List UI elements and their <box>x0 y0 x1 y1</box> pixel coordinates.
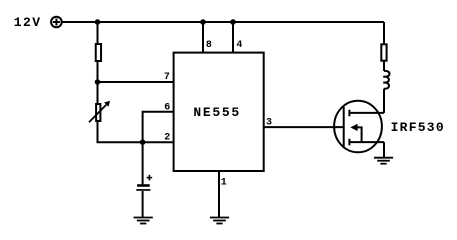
junction node pin 4 <box>230 19 236 25</box>
wire capacitor to ground <box>142 191 144 218</box>
wire pin 8 <box>202 22 204 53</box>
power terminal V+ <box>51 17 62 28</box>
potentiometer VR1 <box>89 101 110 123</box>
ground (capacitor) <box>134 218 153 224</box>
wire R2 to L1 <box>383 61 385 71</box>
resistor R1 <box>96 44 101 61</box>
Q1 body arrow <box>350 124 361 142</box>
Q1 gate bar <box>343 107 345 148</box>
junction node pin 8 <box>200 19 206 25</box>
wire source to ground <box>383 142 385 158</box>
capacitor C1 <box>136 185 150 191</box>
svg-text:7: 7 <box>164 72 170 83</box>
svg-text:8: 8 <box>206 40 212 51</box>
ground (source) <box>374 158 393 164</box>
svg-text:4: 4 <box>236 40 242 51</box>
wire pin 1 to ground <box>218 171 220 218</box>
svg-text:2: 2 <box>164 133 170 144</box>
svg-text:6: 6 <box>164 103 170 114</box>
wire pin 3 to gate <box>264 126 344 128</box>
wire R1 bottom to node <box>97 62 99 83</box>
wire pot bottom to pin 2 rail <box>98 122 174 142</box>
wire L1 to drain <box>383 89 385 113</box>
IC U1 NE555 body <box>174 53 264 171</box>
junction node at R1 top <box>95 19 101 25</box>
svg-text:IRF530: IRF530 <box>391 120 445 135</box>
svg-text:12V: 12V <box>14 15 42 30</box>
wire pin 4 <box>232 22 234 53</box>
Q1 source electrode <box>349 139 384 146</box>
wire top rail down to R2 <box>383 22 385 43</box>
wire top rail <box>62 21 384 23</box>
capacitor C1 polarity + <box>147 175 153 181</box>
wire node to potentiometer <box>97 82 99 103</box>
wire from top rail to R1 <box>97 22 99 43</box>
junction node pin 7 <box>95 79 101 85</box>
ground (pin 1) <box>210 218 229 224</box>
svg-text:1: 1 <box>221 178 227 189</box>
wire node to capacitor <box>142 142 144 184</box>
inductor L1 <box>383 71 389 89</box>
transistor Q1 IRF530 body circle <box>334 101 382 153</box>
wire node to pin 7 <box>98 81 174 83</box>
Q1 drain electrode <box>349 110 384 117</box>
wire pin 6 <box>143 112 174 142</box>
junction node pin 2 / C1 <box>140 139 146 145</box>
resistor R2 <box>381 44 386 60</box>
svg-text:NE555: NE555 <box>193 105 241 120</box>
